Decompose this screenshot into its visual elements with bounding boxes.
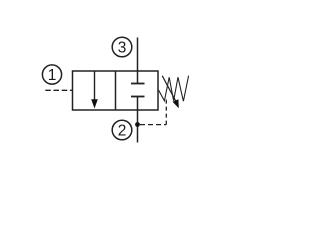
valve body [73,71,159,110]
blocked port T (top) [131,83,145,85]
flow arrow in left box [91,72,98,109]
port 3 line [137,38,139,84]
pilot dashed line from port 1 [45,89,72,91]
drain dashed line vertical [165,99,167,125]
svg-text:3: 3 [118,40,127,57]
port label 1 [42,65,61,84]
spring [159,76,189,102]
port label 3 [112,37,132,57]
blocked port T (bottom) [131,96,145,98]
port 2 line [137,97,139,143]
svg-text:1: 1 [48,67,57,84]
port label 2 [112,120,132,140]
position divider [115,71,117,110]
junction dot [135,122,140,127]
drain dashed line horizontal [140,124,166,126]
spring adjustment arrow [162,76,179,109]
svg-text:2: 2 [118,123,127,140]
